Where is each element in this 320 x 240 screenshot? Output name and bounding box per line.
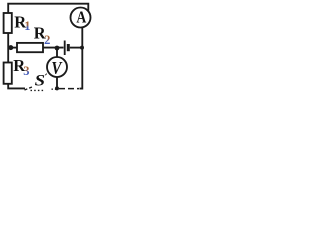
ammeter A bbox=[71, 8, 91, 28]
svg-text:A: A bbox=[76, 8, 86, 26]
switch contact dots bbox=[31, 89, 45, 91]
wire: voltmeter stub bottom bbox=[56, 77, 58, 89]
resistor R2 bbox=[17, 43, 43, 52]
wire: R2 to battery bbox=[43, 47, 64, 49]
junction dot: right node bbox=[80, 46, 84, 50]
svg-text:2: 2 bbox=[44, 33, 50, 47]
wire: left side between R1 and R3 bbox=[7, 33, 9, 63]
wire: right side down from ammeter to bottom-right corner bbox=[80, 28, 83, 89]
svg-text:1: 1 bbox=[24, 19, 30, 33]
junction dot: bottom node bbox=[55, 86, 59, 90]
battery long plate bbox=[64, 41, 66, 56]
wire: dotted segment left of voltmeter stub bbox=[52, 88, 57, 90]
wire: branch from left node to R2 bbox=[8, 47, 17, 49]
junction dot: left branch node bbox=[8, 45, 13, 50]
battery short plate bbox=[67, 44, 70, 51]
resistor R3 bbox=[4, 63, 12, 84]
resistor R1 bbox=[4, 13, 12, 33]
junction dot: voltmeter branch node bbox=[55, 46, 60, 51]
svg-text:3: 3 bbox=[23, 64, 29, 78]
svg-text:V: V bbox=[51, 58, 63, 79]
switch S lever (dashed) bbox=[25, 87, 33, 90]
stray tick mark above S bbox=[45, 74, 47, 76]
svg-text:S: S bbox=[35, 71, 45, 89]
wire: top-left corner to top-right, down to ammeter bbox=[8, 4, 88, 13]
wire: dashed bottom-right segment bbox=[59, 88, 79, 90]
wire: battery to right side bbox=[70, 47, 83, 49]
wire: voltmeter stub top bbox=[56, 48, 58, 58]
voltmeter V bbox=[47, 57, 67, 77]
wire: bottom-left corner bbox=[8, 84, 25, 89]
